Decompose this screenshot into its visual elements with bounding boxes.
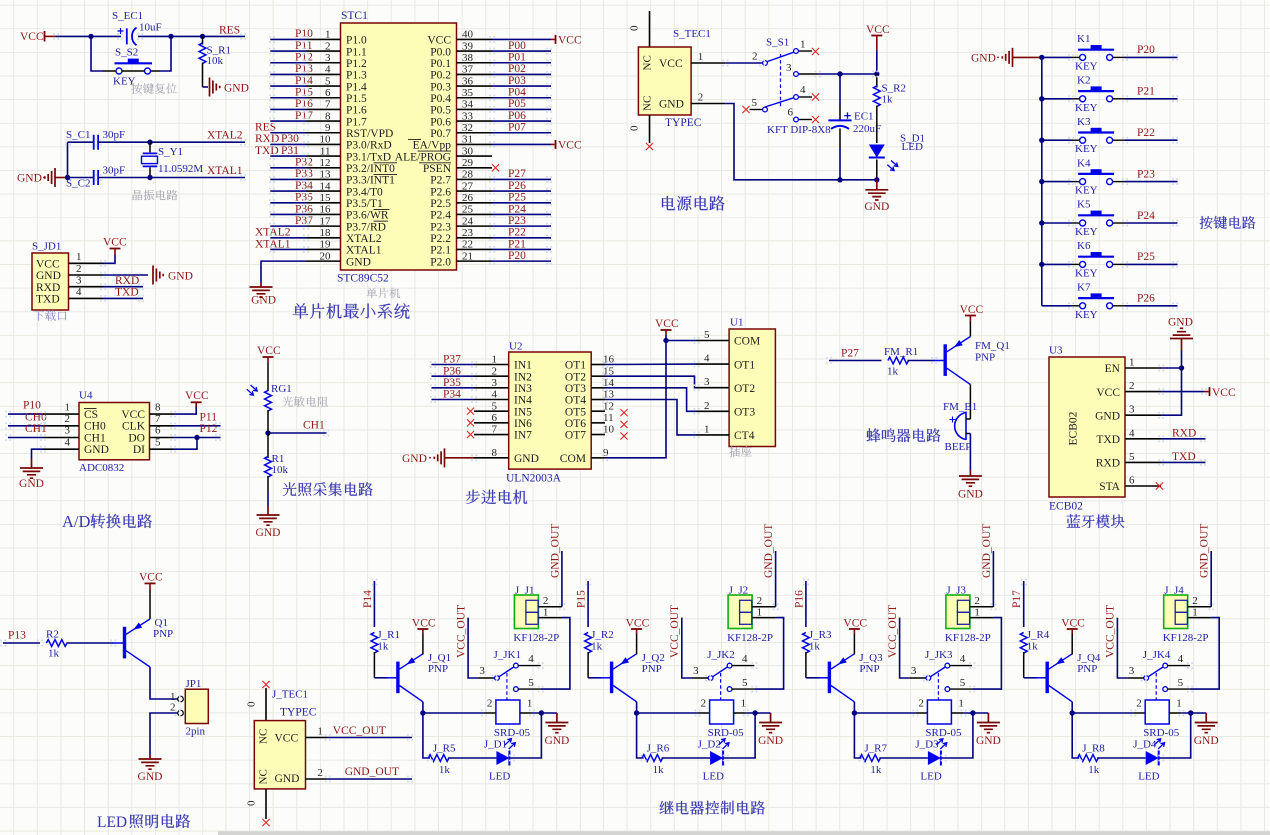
capacitor S_C1 30pF (68, 141, 94, 143)
svg-text:OT5: OT5 (565, 406, 586, 418)
wire GND pin20 (261, 261, 306, 283)
svg-text:FM_Q1: FM_Q1 (975, 340, 1010, 352)
node relay1 coil left (420, 710, 425, 715)
svg-text:5: 5 (528, 677, 534, 689)
transistor J_Q2 PNP (610, 662, 613, 694)
svg-text:VCC: VCC (866, 24, 890, 36)
key K7 row wire left (1042, 305, 1071, 307)
svg-text:CH1: CH1 (84, 432, 106, 444)
svg-text:J_TEC1: J_TEC1 (272, 689, 308, 701)
wire OT2 to U1 pin3 (605, 376, 697, 388)
svg-text:1k: 1k (439, 764, 451, 776)
svg-text:P37: P37 (443, 354, 461, 366)
svg-text:8: 8 (325, 110, 331, 122)
wire VCC to emitter J_Q2 (636, 634, 638, 655)
annotation 插座 (730, 446, 752, 457)
wire collector J_Q2 down (636, 702, 638, 713)
switch K1 KEY (1071, 56, 1080, 58)
svg-text:XTAL2: XTAL2 (207, 130, 243, 142)
wires STC1 right (492, 38, 551, 40)
annotation 光敏电阻 (283, 396, 328, 407)
svg-text:GND: GND (84, 444, 109, 456)
svg-text:VCC: VCC (275, 733, 299, 745)
svg-text:6: 6 (492, 412, 498, 424)
relay J_JK4 coil SRD-05 (1133, 712, 1145, 714)
no-ERC mark U3 STA (1156, 482, 1163, 489)
wire VCC to emitter J_Q4 (1071, 634, 1073, 655)
svg-text:15: 15 (320, 192, 332, 204)
svg-text:7: 7 (492, 424, 498, 436)
svg-text:P01: P01 (508, 52, 526, 64)
svg-text:3: 3 (693, 665, 699, 677)
svg-text:3: 3 (325, 52, 331, 64)
node xtal1-junction (147, 175, 152, 180)
svg-text:KEY: KEY (1075, 267, 1098, 279)
svg-text:40: 40 (462, 29, 474, 41)
svg-text:U2: U2 (509, 341, 522, 353)
svg-text:P34: P34 (443, 389, 461, 401)
wire Q1 collector to JP1 (150, 667, 178, 699)
wire DI to DO (173, 438, 197, 450)
svg-text:J_R4: J_R4 (1027, 629, 1050, 641)
svg-text:5: 5 (325, 75, 331, 87)
svg-text:IN5: IN5 (514, 406, 532, 418)
svg-text:RXD: RXD (115, 275, 139, 287)
svg-text:S_Y1: S_Y1 (158, 146, 183, 158)
svg-text:P3.3/INT1: P3.3/INT1 (346, 175, 395, 187)
svg-text:10: 10 (320, 134, 332, 146)
svg-text:GND: GND (1095, 410, 1120, 422)
svg-text:NC: NC (258, 769, 270, 784)
svg-text:4: 4 (800, 84, 806, 96)
svg-text:2: 2 (757, 595, 763, 607)
title 按键电路 (1200, 216, 1256, 229)
pin 2 J_J3 (970, 606, 994, 608)
wire to relay2 coil (637, 712, 698, 714)
svg-text:P2.4: P2.4 (430, 210, 451, 222)
resistor J_R1 1k (371, 632, 378, 653)
svg-text:P24: P24 (1137, 210, 1155, 222)
svg-text:1: 1 (1176, 698, 1182, 710)
svg-text:VCC: VCC (139, 572, 163, 584)
svg-text:5: 5 (704, 329, 710, 341)
svg-text:P3.5/T1: P3.5/T1 (346, 198, 383, 210)
svg-text:P02: P02 (508, 63, 526, 75)
svg-text:P0.3: P0.3 (430, 81, 451, 93)
svg-text:5: 5 (492, 400, 498, 412)
svg-text:IN7: IN7 (514, 430, 532, 442)
node relay4 coil left (1070, 710, 1075, 715)
svg-text:OT1: OT1 (734, 359, 755, 371)
svg-text:29: 29 (462, 157, 474, 169)
svg-text:R2: R2 (46, 629, 59, 641)
svg-text:FM_B1: FM_B1 (943, 401, 977, 413)
power port VCC (pin31 EA) (551, 143, 555, 145)
svg-text:30pF: 30pF (103, 129, 126, 141)
svg-text:RG1: RG1 (271, 383, 292, 395)
svg-text:31: 31 (462, 134, 473, 146)
svg-text:GND: GND (958, 488, 983, 500)
svg-text:PNP: PNP (642, 663, 662, 675)
svg-text:28: 28 (462, 169, 474, 181)
svg-text:3: 3 (479, 665, 485, 677)
node relay3 coil left (852, 710, 857, 715)
svg-text:RXD: RXD (1096, 458, 1120, 470)
svg-text:P0.0: P0.0 (430, 46, 451, 58)
wire J_J4 pin1 to switch pin5 (1190, 618, 1219, 690)
svg-text:KEY: KEY (1075, 226, 1098, 238)
wire pin1 to VCC (103, 255, 115, 264)
svg-text:1: 1 (1129, 357, 1135, 369)
svg-text:GND: GND (1194, 735, 1219, 747)
wire VCC to emitter J_Q1 (422, 634, 424, 655)
svg-text:1: 1 (974, 607, 980, 619)
node EC1 bottom (837, 177, 842, 182)
svg-text:0: 0 (246, 701, 258, 707)
svg-text:2: 2 (918, 698, 924, 710)
svg-text:1: 1 (757, 607, 763, 619)
pin 2 J_J2 (752, 606, 776, 608)
node xtal2-junction (147, 140, 152, 145)
wire P11 (173, 425, 221, 427)
svg-text:SRD-05: SRD-05 (925, 727, 962, 739)
buzzer FM_B1 BEEP (965, 412, 967, 441)
wire P27 (829, 360, 882, 362)
svg-text:3: 3 (65, 425, 71, 437)
switch K6 KEY (1071, 263, 1080, 265)
svg-text:GND: GND (275, 773, 300, 785)
svg-text:4: 4 (960, 653, 966, 665)
wire collector J_Q4 down (1071, 702, 1073, 713)
title 蜂鸣器电路 (867, 428, 941, 442)
svg-text:1: 1 (543, 607, 549, 619)
svg-text:J_R2: J_R2 (591, 629, 614, 641)
wire GND_OUT (328, 778, 412, 780)
svg-text:OT2: OT2 (734, 383, 755, 395)
svg-text:OT6: OT6 (565, 418, 586, 430)
svg-text:GND: GND (224, 83, 249, 95)
node VCC-COM (663, 338, 668, 343)
svg-text:P3.0/RxD: P3.0/RxD (346, 140, 392, 152)
svg-text:2: 2 (752, 51, 758, 63)
svg-text:16: 16 (320, 204, 332, 216)
svg-text:P15: P15 (576, 590, 588, 608)
svg-text:GND: GND (138, 771, 163, 783)
svg-text:K6: K6 (1077, 240, 1091, 252)
title 步进电机 (466, 490, 527, 504)
svg-text:10k: 10k (272, 464, 289, 476)
svg-text:KF128-2P: KF128-2P (1163, 632, 1209, 644)
svg-text:18: 18 (320, 227, 332, 239)
wire VCC to emitter (969, 322, 971, 337)
switch K3 KEY (1071, 139, 1080, 141)
svg-text:LED: LED (97, 814, 127, 831)
wire VCC_OUT to J_JK3 pin3 (900, 618, 910, 678)
earth ground (buzzer) (959, 470, 982, 486)
wire XTAL1 (98, 177, 245, 179)
wire to relay1 coil (423, 712, 484, 714)
wire VCC to U2 COM pin9 (605, 341, 666, 458)
svg-text:GND: GND (19, 478, 44, 490)
svg-text:1: 1 (704, 423, 710, 435)
svg-text:P04: P04 (508, 87, 526, 99)
wires U2 inputs P37-P34 (432, 364, 475, 366)
switch K2 KEY (1071, 98, 1080, 100)
svg-text:K7: K7 (1077, 282, 1091, 294)
svg-text:A/D: A/D (62, 512, 91, 531)
svg-text:J_R8: J_R8 (1082, 743, 1105, 755)
svg-text:P2.6: P2.6 (430, 186, 451, 198)
svg-text:KEY: KEY (1075, 309, 1098, 321)
svg-text:30pF: 30pF (103, 165, 126, 177)
pin 3 U4 CH1 (43, 437, 79, 439)
node key bus K3 (1039, 138, 1044, 143)
wire TXD (103, 297, 143, 299)
pin 1 U4 CS (43, 413, 79, 415)
crystal S_Y1 11.0592M (149, 142, 151, 152)
svg-text:ADC0832: ADC0832 (79, 462, 124, 474)
svg-text:P3.2/INT0: P3.2/INT0 (346, 163, 395, 175)
svg-text:P03: P03 (508, 75, 526, 87)
svg-text:4: 4 (1178, 653, 1184, 665)
svg-text:VCC: VCC (257, 345, 281, 357)
svg-text:1: 1 (1192, 607, 1198, 619)
svg-text:CH0: CH0 (84, 421, 106, 433)
svg-text:P1.7: P1.7 (346, 116, 367, 128)
wire to LED J_D1 (448, 757, 497, 759)
wire key K1 to net (1125, 56, 1178, 58)
svg-text:1k: 1k (887, 366, 899, 378)
svg-text:GND: GND (514, 453, 539, 465)
wire GND rail (power circuit) (725, 104, 877, 180)
earth ground (relay3) (977, 713, 1000, 733)
svg-text:5: 5 (1178, 677, 1184, 689)
resistor R2 1k (46, 640, 67, 647)
svg-text:3: 3 (1129, 404, 1135, 416)
svg-text:7: 7 (325, 99, 331, 111)
wire switch branch right (151, 70, 160, 72)
svg-text:PNP: PNP (975, 352, 995, 364)
svg-text:2: 2 (1192, 595, 1198, 607)
svg-text:10uF: 10uF (139, 22, 162, 34)
pin 0 bottom S_TEC1 with no-ERC (649, 115, 651, 143)
svg-text:1k: 1k (809, 641, 821, 653)
svg-text:J_JK3: J_JK3 (925, 649, 953, 661)
svg-text:IN6: IN6 (514, 418, 532, 430)
svg-text:37: 37 (462, 64, 474, 76)
earth ground (relay4) (1195, 713, 1218, 733)
svg-text:25: 25 (462, 204, 474, 216)
resistor J_R6 1k (642, 755, 663, 762)
svg-text:P1.0: P1.0 (346, 35, 367, 47)
svg-text:2: 2 (170, 702, 176, 714)
svg-text:1k: 1k (1027, 641, 1039, 653)
no-ERC mark pin29 (492, 164, 499, 171)
svg-text:VCC: VCC (558, 139, 582, 151)
svg-text:CH0: CH0 (25, 412, 47, 424)
svg-text:P23: P23 (508, 215, 526, 227)
svg-text:P35: P35 (443, 377, 461, 389)
key K1 row wire left (1042, 56, 1071, 58)
wire pin1 to switch (725, 62, 762, 64)
key K4 row wire left (1042, 181, 1071, 183)
annotation 晶振电路 (133, 190, 178, 201)
annotation 单片机 (367, 288, 401, 299)
svg-text:1k: 1k (1088, 764, 1100, 776)
svg-text:GND_OUT: GND_OUT (981, 524, 993, 578)
svg-text:VCC: VCC (558, 34, 582, 46)
switch K7 KEY (1071, 305, 1080, 307)
svg-text:P10: P10 (295, 28, 313, 40)
wire relay1 pin1 to GND (532, 712, 557, 714)
svg-text:EN: EN (1105, 363, 1121, 375)
resistor R1 10k (267, 433, 269, 458)
svg-text:2: 2 (698, 92, 704, 104)
node EC1 top (837, 71, 842, 76)
resistor FM_R1 1k (888, 357, 909, 364)
wire end compile marks (269, 36, 275, 43)
svg-text:RXD: RXD (1172, 428, 1196, 440)
svg-text:XTAL2: XTAL2 (255, 227, 291, 239)
wire base J_Q2 (588, 677, 602, 679)
svg-text:S_JD1: S_JD1 (32, 241, 61, 253)
svg-text:PNP: PNP (859, 663, 879, 675)
svg-text:13: 13 (320, 169, 332, 181)
svg-text:P23: P23 (1137, 168, 1155, 180)
wire to Q1 base (67, 642, 113, 644)
svg-text:COM: COM (560, 453, 586, 465)
svg-text:VCC: VCC (412, 618, 436, 630)
svg-text:P2.1: P2.1 (430, 245, 451, 257)
pin 1 S_JD1 (69, 262, 104, 264)
svg-text:OT2: OT2 (565, 371, 586, 383)
LED J_D1 (496, 751, 509, 765)
earth ground (U4) (20, 459, 43, 478)
svg-text:J_JK1: J_JK1 (494, 649, 522, 661)
pin 2 S_JD1 (69, 274, 104, 276)
transistor J_Q4 PNP (1045, 662, 1048, 694)
node relay3 right (970, 710, 975, 715)
svg-text:36: 36 (462, 75, 474, 87)
svg-text:KEY: KEY (1075, 60, 1098, 72)
key K6 row wire left (1042, 263, 1071, 265)
wire J_J2 pin1 to switch pin5 (754, 618, 783, 690)
wire VCC_OUT to J_JK4 pin3 (1117, 618, 1127, 678)
svg-text:P20: P20 (1137, 44, 1155, 56)
svg-text:OT4: OT4 (565, 395, 586, 407)
pin 2 U4 CH0 (43, 425, 79, 427)
svg-text:RXD: RXD (255, 133, 279, 145)
svg-text:P13: P13 (8, 630, 26, 642)
svg-text:VCC: VCC (1212, 387, 1236, 399)
svg-text:GND: GND (659, 99, 684, 111)
svg-text:GND_OUT: GND_OUT (549, 524, 561, 578)
no-ERC mark S_S1 pin5 (742, 106, 749, 113)
pin 2 J_J1 (538, 606, 562, 608)
svg-text:J_D1: J_D1 (484, 739, 507, 751)
svg-text:TXD: TXD (115, 287, 139, 299)
title 单片机最小系统 (293, 303, 410, 319)
svg-text:20: 20 (320, 250, 332, 262)
resistor J_R8 1k (1078, 755, 1099, 762)
svg-text:JP1: JP1 (186, 678, 202, 690)
svg-text:2: 2 (974, 595, 980, 607)
svg-text:LED: LED (703, 771, 724, 783)
svg-text:LED: LED (1138, 771, 1159, 783)
wire VCC_OUT to J_JK1 pin3 (468, 618, 478, 678)
svg-text:3: 3 (1129, 665, 1135, 677)
svg-text:P06: P06 (508, 110, 526, 122)
resistor J_R4 1k (1020, 632, 1027, 653)
wire collector to buzzer (969, 385, 971, 420)
overlines STC1 right (408, 138, 421, 140)
svg-text:3: 3 (76, 275, 82, 287)
svg-text:2: 2 (1136, 698, 1142, 710)
wire U3 RXD (1161, 461, 1206, 463)
wire J_J1 pin1 to switch pin5 (541, 618, 570, 690)
node key bus K4 (1039, 179, 1044, 184)
wire to LED J_D4 (1097, 757, 1146, 759)
svg-text:P0.7: P0.7 (430, 128, 451, 140)
svg-text:J_R5: J_R5 (433, 743, 456, 755)
svg-text:RES: RES (255, 122, 276, 134)
svg-text:OT3: OT3 (565, 383, 586, 395)
svg-text:1: 1 (698, 51, 704, 63)
svg-text:VCC: VCC (121, 409, 145, 421)
svg-text:3: 3 (786, 62, 792, 74)
relay J_JK2 coil SRD-05 (698, 712, 710, 714)
earth ground (relay1) (545, 713, 568, 733)
pin 2 J_J4 (1188, 606, 1212, 608)
svg-text:P10: P10 (23, 399, 41, 411)
svg-text:P00: P00 (508, 40, 526, 52)
switch K5 KEY (1071, 222, 1080, 224)
svg-text:NC: NC (642, 96, 654, 111)
transistor J_Q3 PNP (828, 662, 831, 694)
node reset-R (200, 34, 205, 39)
svg-text:P21: P21 (1137, 86, 1155, 98)
svg-text:TXD: TXD (1172, 451, 1196, 463)
svg-text:SRD-05: SRD-05 (708, 727, 745, 739)
node relay2 coil left (634, 710, 639, 715)
svg-text:5: 5 (1129, 451, 1135, 463)
svg-text:COM: COM (734, 336, 760, 348)
svg-text:0: 0 (629, 25, 641, 31)
node reset-A (88, 34, 93, 39)
wire base J_Q4 (1024, 677, 1037, 679)
pin 2 S_TEC1 GND (691, 103, 725, 105)
svg-text:5: 5 (742, 677, 748, 689)
svg-text:6: 6 (155, 425, 161, 437)
svg-text:P36: P36 (443, 365, 461, 377)
svg-text:1: 1 (325, 29, 331, 41)
svg-text:P05: P05 (508, 98, 526, 110)
pin 2 J_TEC1 (306, 778, 328, 780)
svg-text:6: 6 (325, 87, 331, 99)
wire base J_Q1 (374, 677, 388, 679)
wire VCC to Q1 emitter (149, 589, 151, 619)
svg-text:OT3: OT3 (734, 407, 755, 419)
svg-text:K3: K3 (1077, 116, 1091, 128)
wire to LED J_D2 (662, 757, 711, 759)
wire switch branch left (91, 36, 103, 71)
pin 1 J_J3 (970, 617, 994, 619)
svg-text:STC1: STC1 (341, 10, 368, 22)
svg-text:1: 1 (76, 251, 82, 263)
svg-text:1: 1 (958, 698, 964, 710)
svg-text:26: 26 (462, 192, 474, 204)
resistor S_R2 1k (876, 74, 878, 88)
